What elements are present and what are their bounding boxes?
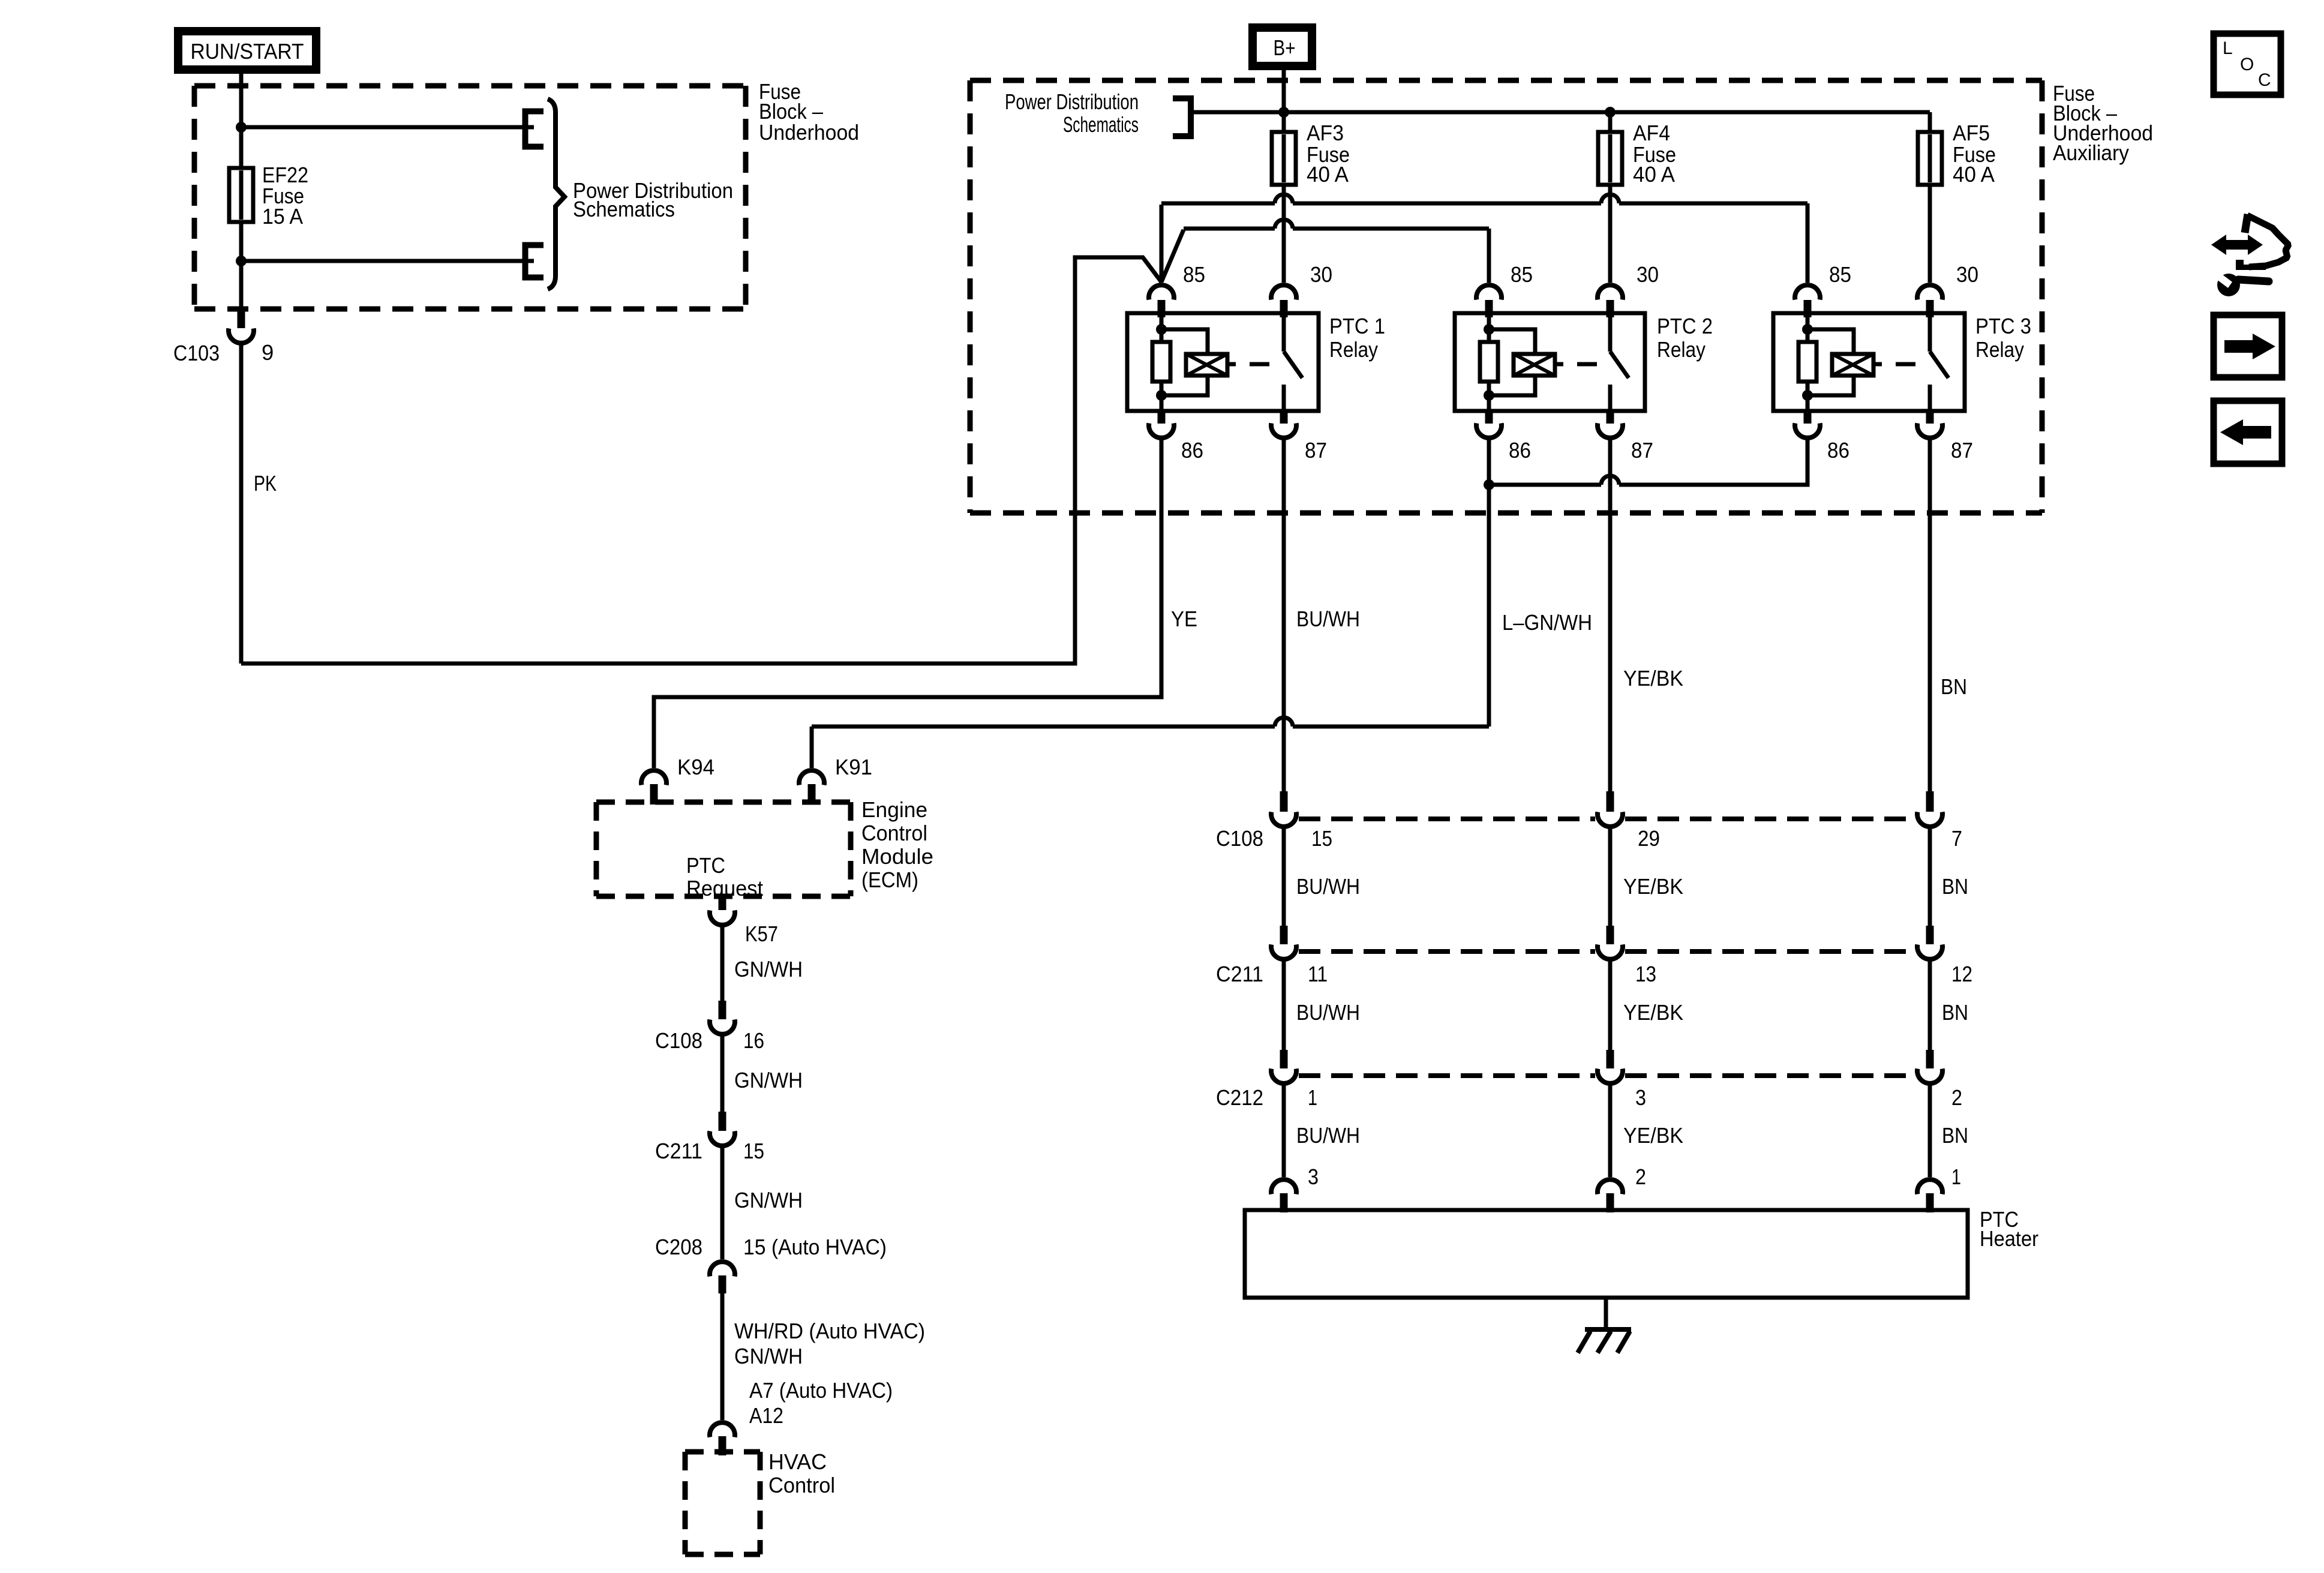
svg-text:7: 7 xyxy=(1951,826,1962,851)
svg-text:C: C xyxy=(2258,70,2271,90)
svg-text:AF5: AF5 xyxy=(1953,121,1990,145)
svg-text:BN: BN xyxy=(1942,1000,1968,1025)
svg-text:29: 29 xyxy=(1638,826,1660,851)
svg-text:C103: C103 xyxy=(173,341,220,365)
svg-text:GN/WH: GN/WH xyxy=(734,957,803,981)
svg-text:YE/BK: YE/BK xyxy=(1623,1123,1683,1148)
svg-text:A7 (Auto HVAC): A7 (Auto HVAC) xyxy=(749,1378,893,1403)
svg-text:40 A: 40 A xyxy=(1307,162,1349,187)
svg-text:B+: B+ xyxy=(1274,35,1296,60)
svg-text:Engine: Engine xyxy=(861,797,927,822)
svg-text:A12: A12 xyxy=(749,1403,783,1428)
svg-text:L: L xyxy=(2223,38,2233,58)
svg-text:WH/RD (Auto HVAC): WH/RD (Auto HVAC) xyxy=(734,1319,925,1343)
svg-text:15: 15 xyxy=(1311,826,1332,851)
svg-text:Module: Module xyxy=(861,844,933,869)
svg-text:C211: C211 xyxy=(1216,962,1263,986)
svg-text:Control: Control xyxy=(768,1473,835,1497)
svg-text:BU/WH: BU/WH xyxy=(1296,874,1360,899)
svg-text:3: 3 xyxy=(1635,1085,1646,1110)
svg-text:Underhood: Underhood xyxy=(759,120,859,145)
svg-text:YE: YE xyxy=(1171,607,1197,631)
svg-text:3: 3 xyxy=(1308,1164,1319,1189)
svg-text:87: 87 xyxy=(1631,438,1653,463)
svg-text:1: 1 xyxy=(1951,1164,1961,1189)
svg-text:L–GN/WH: L–GN/WH xyxy=(1502,610,1592,635)
svg-text:PTC 1: PTC 1 xyxy=(1329,314,1385,338)
svg-text:1: 1 xyxy=(1308,1085,1317,1110)
svg-text:15: 15 xyxy=(743,1139,764,1163)
svg-text:Schematics: Schematics xyxy=(573,197,675,221)
svg-text:K57: K57 xyxy=(745,921,778,946)
svg-text:RUN/START: RUN/START xyxy=(191,39,304,64)
svg-text:GN/WH: GN/WH xyxy=(734,1344,803,1368)
svg-text:16: 16 xyxy=(743,1028,764,1053)
svg-text:Relay: Relay xyxy=(1975,337,2025,362)
svg-text:86: 86 xyxy=(1509,438,1531,463)
svg-text:YE/BK: YE/BK xyxy=(1623,874,1683,899)
svg-text:PK: PK xyxy=(254,471,277,496)
svg-text:PTC: PTC xyxy=(686,853,725,878)
svg-text:C108: C108 xyxy=(1216,826,1263,851)
svg-text:12: 12 xyxy=(1951,962,1972,986)
svg-text:YE/BK: YE/BK xyxy=(1623,666,1683,691)
svg-text:(ECM): (ECM) xyxy=(861,867,918,892)
svg-text:Power Distribution: Power Distribution xyxy=(1005,89,1139,114)
svg-text:BU/WH: BU/WH xyxy=(1296,1123,1360,1148)
svg-text:BU/WH: BU/WH xyxy=(1296,607,1360,631)
svg-text:30: 30 xyxy=(1637,262,1659,287)
svg-text:85: 85 xyxy=(1511,262,1533,287)
svg-text:GN/WH: GN/WH xyxy=(734,1188,803,1212)
svg-text:13: 13 xyxy=(1635,962,1656,986)
svg-text:87: 87 xyxy=(1951,438,1973,463)
svg-text:K91: K91 xyxy=(835,755,872,779)
svg-text:40 A: 40 A xyxy=(1633,162,1676,187)
svg-text:Relay: Relay xyxy=(1657,337,1706,362)
svg-text:30: 30 xyxy=(1310,262,1332,287)
svg-text:15 A: 15 A xyxy=(262,204,304,229)
svg-text:K94: K94 xyxy=(677,755,714,779)
svg-text:86: 86 xyxy=(1181,438,1203,463)
svg-text:BN: BN xyxy=(1941,674,1967,699)
svg-text:9: 9 xyxy=(262,340,274,365)
svg-text:AF4: AF4 xyxy=(1633,121,1670,145)
svg-text:HVAC: HVAC xyxy=(768,1449,827,1474)
svg-text:YE/BK: YE/BK xyxy=(1623,1000,1683,1025)
svg-text:2: 2 xyxy=(1635,1164,1646,1189)
svg-text:40 A: 40 A xyxy=(1953,162,1995,187)
svg-text:Control: Control xyxy=(861,821,927,845)
svg-text:85: 85 xyxy=(1183,262,1205,287)
svg-text:Relay: Relay xyxy=(1329,337,1379,362)
svg-text:2: 2 xyxy=(1951,1085,1962,1110)
svg-text:30: 30 xyxy=(1956,262,1978,287)
svg-text:GN/WH: GN/WH xyxy=(734,1068,803,1092)
svg-text:87: 87 xyxy=(1305,438,1327,463)
svg-text:85: 85 xyxy=(1829,262,1851,287)
svg-text:PTC 2: PTC 2 xyxy=(1657,314,1713,338)
svg-text:Heater: Heater xyxy=(1980,1226,2038,1251)
svg-text:O: O xyxy=(2240,55,2254,74)
svg-text:C211: C211 xyxy=(655,1139,702,1163)
svg-text:Schematics: Schematics xyxy=(1063,112,1139,137)
svg-text:C212: C212 xyxy=(1216,1085,1263,1110)
svg-text:BN: BN xyxy=(1942,874,1968,899)
svg-text:BN: BN xyxy=(1942,1123,1968,1148)
svg-text:PTC 3: PTC 3 xyxy=(1975,314,2031,338)
svg-text:AF3: AF3 xyxy=(1307,121,1344,145)
svg-text:C108: C108 xyxy=(655,1028,702,1053)
svg-text:15 (Auto HVAC): 15 (Auto HVAC) xyxy=(743,1235,887,1259)
svg-text:BU/WH: BU/WH xyxy=(1296,1000,1360,1025)
svg-text:86: 86 xyxy=(1827,438,1849,463)
svg-text:Auxiliary: Auxiliary xyxy=(2053,140,2130,165)
svg-text:C208: C208 xyxy=(655,1235,702,1259)
svg-text:11: 11 xyxy=(1308,962,1328,986)
